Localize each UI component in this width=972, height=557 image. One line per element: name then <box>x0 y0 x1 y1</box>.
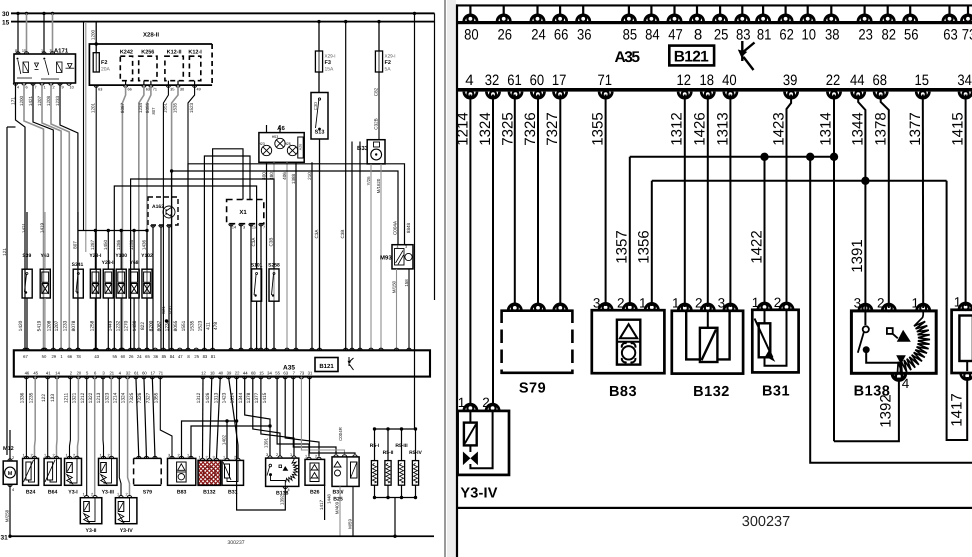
wire label 1200 top <box>91 29 96 40</box>
svg-text:36: 36 <box>153 354 158 359</box>
wire stub pin 82 of A35 <box>887 6 889 16</box>
pin of A35 top <box>119 348 123 350</box>
connector pin 44 of A35 <box>852 91 865 98</box>
connector B138 pin 1 <box>917 304 930 311</box>
wire X1 pin 3 to A35 <box>240 224 242 351</box>
svg-text:1324: 1324 <box>477 112 494 145</box>
svg-text:F3: F3 <box>325 60 331 66</box>
svg-text:807: 807 <box>73 241 78 249</box>
wire X1 pin 7 to A35 <box>260 224 262 351</box>
relay A171 <box>14 54 76 83</box>
svg-text:1: 1 <box>458 395 466 410</box>
wire 7325 pin61 to S79 <box>514 95 516 307</box>
wire 8055 <box>147 85 151 350</box>
wire label M/409 <box>334 501 339 514</box>
junction bottom rail R5-II <box>386 496 389 499</box>
switch S13 <box>311 93 328 140</box>
pin 5 of A35 bottom <box>85 377 89 379</box>
svg-text:1214: 1214 <box>454 112 471 145</box>
wire label 1286 <box>116 239 121 250</box>
wire below Y28-I <box>94 298 96 350</box>
junction rail Y28-I <box>94 229 97 232</box>
wire branch far left <box>7 126 16 128</box>
svg-text:822: 822 <box>140 322 146 330</box>
wire stub pin 73 of A35 <box>967 6 969 16</box>
wire X1 pin 14 to A35 <box>230 224 232 351</box>
svg-text:81: 81 <box>211 354 216 359</box>
connector pin 83 of A35 <box>736 15 749 22</box>
junction X28-II entry <box>95 42 98 45</box>
pin 61 of A35 bottom <box>134 377 138 379</box>
svg-text:A6: A6 <box>277 125 285 132</box>
wire above Y68 <box>133 231 135 270</box>
svg-text:36: 36 <box>577 27 592 44</box>
wire label 1420 above A35 <box>18 320 24 331</box>
wire 1355 to B83 pin3 <box>160 377 172 458</box>
connector pin 56 of A35 <box>904 15 917 22</box>
pin 4 of A35 bottom <box>117 377 121 379</box>
svg-text:12: 12 <box>676 72 691 89</box>
svg-text:C3A: C3A <box>314 229 319 239</box>
component Y3-IV <box>458 411 509 475</box>
svg-text:5A: 5A <box>385 67 392 73</box>
wire stub pin 24 of A35 <box>536 6 538 16</box>
wire stub pin 25 of A35 <box>719 6 721 16</box>
svg-text:63: 63 <box>146 88 150 92</box>
module K12-II box <box>165 56 183 80</box>
Y3-IV box <box>115 498 136 524</box>
wire 1313 to B132 pin3 <box>217 377 221 458</box>
pin 3 of B138L <box>268 456 272 458</box>
pin of A35 top <box>394 348 398 350</box>
svg-text:1344: 1344 <box>849 112 866 145</box>
wire 1234 <box>139 85 144 350</box>
pin of A35 top <box>132 348 136 350</box>
junction rail A pin22 <box>235 419 238 422</box>
junction bus30 x44 <box>42 12 45 15</box>
pin 26 of A35 top <box>128 348 132 350</box>
junction bottom rail R5-III <box>400 496 403 499</box>
connector pin 60 of A35 <box>531 91 544 98</box>
pin 73 of A35 bottom <box>299 377 303 379</box>
svg-text:1377: 1377 <box>254 392 260 403</box>
wire stub pin 47 of A35 <box>673 6 675 16</box>
wire route to S101 <box>114 186 256 350</box>
svg-text:1422: 1422 <box>748 230 765 263</box>
svg-text:B83: B83 <box>177 490 187 496</box>
svg-text:18: 18 <box>700 72 715 89</box>
svg-text:39: 39 <box>227 371 232 376</box>
wire label 1322 below A35 <box>88 392 94 403</box>
B138 left internals <box>269 464 272 467</box>
B138 internal wire to pin 4 <box>866 351 900 373</box>
svg-text:30: 30 <box>180 88 184 92</box>
wire M/150 <box>396 269 398 350</box>
svg-text:3: 3 <box>854 296 862 311</box>
wire 1200 to fuse F2 <box>95 22 97 53</box>
svg-text:1313: 1313 <box>714 112 731 145</box>
wire main vertical x345 <box>345 22 347 351</box>
connector S79 middle pin <box>531 304 544 311</box>
svg-text:K256: K256 <box>141 50 154 56</box>
pin 1 of Y3-IV <box>119 496 123 498</box>
svg-text:15: 15 <box>915 72 930 89</box>
svg-text:1312: 1312 <box>669 112 686 145</box>
pin of A35 top <box>272 348 276 350</box>
connector S79 left pin <box>508 304 521 311</box>
pin 24 of A35 top <box>137 348 141 350</box>
connector pin 17 of A35 <box>554 91 567 98</box>
wire 7327 pin17 to S79 <box>559 95 561 307</box>
svg-text:29: 29 <box>51 354 56 359</box>
wire label 1314 <box>818 112 835 145</box>
wire label 1448 <box>327 494 332 504</box>
wire 1378 pin68 to B138 pin2 <box>881 95 889 309</box>
svg-text:56: 56 <box>904 27 919 44</box>
pin 71 of A35 bottom <box>158 377 162 379</box>
svg-text:4: 4 <box>465 72 473 89</box>
svg-text:C004R: C004R <box>338 427 343 441</box>
wire A162 to A35 <box>152 225 154 350</box>
svg-text:2: 2 <box>205 455 207 459</box>
wire to B30 pin1 <box>310 377 356 454</box>
valve Y102 box <box>142 269 152 298</box>
wire to R5-I <box>374 429 376 461</box>
wire 7327 to S79 <box>152 377 155 458</box>
svg-text:1344: 1344 <box>238 392 244 403</box>
svg-text:1420: 1420 <box>18 320 24 331</box>
pin 4 of A171 <box>13 83 17 85</box>
connector pin 62 of A35 <box>779 15 792 22</box>
svg-text:133: 133 <box>50 394 56 402</box>
svg-text:60: 60 <box>121 354 126 359</box>
B26 box <box>305 459 325 485</box>
wire label 8087 <box>120 102 125 113</box>
svg-text:C004A: C004A <box>393 220 398 235</box>
svg-text:1415: 1415 <box>950 112 967 145</box>
label box B121 <box>315 358 338 372</box>
fuse F2 body <box>375 51 382 72</box>
connector pin 39 of A35 <box>785 91 798 98</box>
svg-text:61: 61 <box>507 72 522 89</box>
connector pin 38 of A35 <box>825 15 838 22</box>
svg-text:1: 1 <box>954 295 962 310</box>
junction rail R5-IV <box>414 427 417 430</box>
svg-text:121: 121 <box>2 248 7 256</box>
pin 49 of X28-II <box>192 85 196 87</box>
pin of A35 top <box>229 348 233 350</box>
wire label 1421b <box>22 222 27 233</box>
B83L box <box>168 458 196 485</box>
wire below S341 <box>77 298 79 350</box>
wire below Y100 <box>120 298 122 350</box>
pin 1 of Y3-III <box>101 456 105 458</box>
wire label C82 <box>374 87 379 96</box>
svg-text:1426: 1426 <box>205 392 211 403</box>
junction route <box>170 169 173 172</box>
component B132 <box>672 311 743 374</box>
junction bottom rail R5-IV <box>414 496 417 499</box>
wire 1355 pin71 to B83 pin3 <box>605 95 607 307</box>
svg-text:3: 3 <box>212 455 214 459</box>
wire 1233 / 8078 <box>60 83 78 350</box>
svg-text:H53: H53 <box>272 135 279 139</box>
wire label 1523 above A35 <box>198 320 204 331</box>
svg-text:Y3-IV: Y3-IV <box>120 528 134 534</box>
svg-text:B121: B121 <box>674 48 710 65</box>
wire label 1523 <box>189 102 194 113</box>
wire label 1551 <box>163 102 168 113</box>
wire below Y28-II <box>107 298 109 350</box>
svg-text:4: 4 <box>12 488 14 492</box>
svg-text:1421: 1421 <box>28 95 33 106</box>
wire label 400 <box>262 172 267 180</box>
junction rail Y28-II <box>107 229 110 232</box>
connector pin 47 of A35 <box>668 15 681 22</box>
B64 box <box>44 458 61 485</box>
svg-text:1211: 1211 <box>64 393 70 404</box>
svg-text:B30/: B30/ <box>333 490 345 496</box>
connector right sensor pin 1 <box>959 303 972 310</box>
pin 1 of B26 <box>307 457 311 459</box>
svg-text:F2: F2 <box>385 60 391 66</box>
wire label 1378 below A35 <box>246 392 252 403</box>
pin 35 of X28-II <box>166 85 170 87</box>
svg-text:1: 1 <box>99 453 101 457</box>
right pane top border <box>456 4 972 6</box>
pin of S79 left <box>144 456 148 458</box>
svg-text:46: 46 <box>25 371 30 376</box>
wire label 1378 <box>873 112 890 145</box>
wire 1523 <box>188 85 195 350</box>
wire 1207 / 1419 <box>42 83 61 350</box>
connector B31 pin 1 <box>758 303 771 310</box>
svg-text:1258: 1258 <box>89 320 95 331</box>
pin 60 of A35 bottom <box>142 377 146 379</box>
B83 inner symbol box <box>617 320 640 365</box>
svg-text:406: 406 <box>282 172 287 180</box>
svg-text:73: 73 <box>962 27 972 44</box>
svg-text:24: 24 <box>531 27 546 44</box>
pin 78 of A35 top <box>76 348 80 350</box>
svg-text:8848: 8848 <box>406 222 411 233</box>
pin 1 of B138L <box>292 456 296 458</box>
pin 43 of A35 top <box>94 348 98 350</box>
pin 3 of X1 <box>239 224 243 226</box>
wire route to X1 b <box>213 149 243 350</box>
wire label C3B b <box>269 238 274 247</box>
switch S101 box <box>252 269 262 301</box>
wire to B30 pin2 <box>301 377 344 454</box>
svg-text:1449: 1449 <box>107 320 113 331</box>
svg-text:1: 1 <box>752 295 760 310</box>
svg-text:1: 1 <box>290 453 292 457</box>
pin 1 of B64 <box>46 456 50 458</box>
wire stub pin 81 of A35 <box>762 6 764 16</box>
wire label 1423 below A35 <box>222 392 228 403</box>
svg-text:M/409: M/409 <box>334 501 339 514</box>
R5-II box <box>385 461 391 486</box>
wire 1201 <box>95 85 97 350</box>
pin 10 of A171 <box>67 83 71 85</box>
svg-text:122: 122 <box>41 394 47 402</box>
pin 34 of A35 bottom <box>267 377 271 379</box>
svg-text:8055: 8055 <box>173 320 179 331</box>
wire label 1234 above A35 <box>165 320 171 331</box>
ECU A35 box <box>14 350 430 376</box>
wire label 1313 <box>714 112 731 145</box>
wire label M/258 <box>4 509 9 522</box>
svg-text:2: 2 <box>617 296 625 311</box>
Y3-II box <box>80 498 102 524</box>
lamp module A6 <box>259 133 304 163</box>
wire 1214 pin4 to Y3-IV pin1 <box>469 95 471 407</box>
svg-text:M/150: M/150 <box>391 280 396 293</box>
svg-text:4: 4 <box>119 371 122 376</box>
svg-text:15: 15 <box>259 371 264 376</box>
footer separator line <box>457 507 972 509</box>
wire 1417 row B to right sensor pin2 <box>947 181 968 440</box>
wire label C3D <box>313 102 318 110</box>
wire label 1551 above A35 <box>181 320 187 331</box>
connector pin 8 of A35 <box>690 15 703 22</box>
pin 2 of B24 <box>32 456 36 458</box>
junction rail Y68 <box>132 229 135 232</box>
wire label 1200 <box>19 95 24 106</box>
connector pin 32 of A35 <box>486 91 499 98</box>
svg-text:M/258: M/258 <box>4 509 9 522</box>
wire above S39 <box>26 212 28 269</box>
wire 1356 B83 pin1 up to row B <box>651 181 653 306</box>
wire above Y102 <box>146 231 148 270</box>
svg-text:1391: 1391 <box>264 437 269 448</box>
wire twin b <box>85 22 87 252</box>
wire M/1620 <box>380 164 382 350</box>
svg-text:X1: X1 <box>239 209 247 216</box>
svg-text:X29-I: X29-I <box>385 54 396 59</box>
pin 6 of A171 <box>22 83 26 85</box>
svg-text:1402: 1402 <box>222 434 227 445</box>
B138 clock spring coil <box>897 311 930 374</box>
R5-III box <box>398 461 404 486</box>
wire 7325 to S79 <box>136 377 139 458</box>
junction bus15 x379 <box>377 20 380 23</box>
svg-text:3: 3 <box>266 453 268 457</box>
wire 1324 pin32 to Y3-IV pin2 <box>492 95 494 407</box>
pin 30 of X28-II <box>176 85 180 87</box>
svg-text:7326: 7326 <box>137 392 143 403</box>
wire label 7327 below A35 <box>145 392 151 403</box>
connector B132 pin 1 <box>678 304 691 311</box>
wire 1426 to B132 pin2 <box>210 377 212 458</box>
pin 68 of A35 bottom <box>251 377 255 379</box>
wire 1312 to B132 pin1 <box>202 377 205 458</box>
wire label 1391 <box>849 239 866 272</box>
wire stub pin 66 of A35 <box>559 6 561 16</box>
svg-text:2: 2 <box>70 371 73 376</box>
svg-text:Y3-I: Y3-I <box>68 490 78 496</box>
wire label M/1620 <box>376 178 381 193</box>
svg-text:34: 34 <box>267 371 272 376</box>
svg-text:1436: 1436 <box>142 239 147 250</box>
svg-text:1: 1 <box>911 296 919 311</box>
svg-text:67: 67 <box>23 354 28 359</box>
wire 1415 pin34 to right sensor pin1 <box>965 95 967 307</box>
pin 66 of X28-II <box>123 85 127 87</box>
wire row A down and right to edge <box>810 157 972 463</box>
connector pin 34 of A35 <box>959 91 972 98</box>
wire label 210 <box>307 172 312 180</box>
svg-text:3: 3 <box>102 371 105 376</box>
junction rail Y102 <box>145 229 148 232</box>
bus 15 <box>11 21 435 23</box>
svg-text:1426: 1426 <box>692 112 709 145</box>
wire label 1356 <box>636 230 653 263</box>
pin 20 of A35 bottom <box>76 377 80 379</box>
B24 box <box>23 458 39 485</box>
junction bus30 x52.5 <box>51 12 54 15</box>
connector B83 pin 3 <box>599 303 612 310</box>
pin 8 of A35 top <box>186 348 190 350</box>
wire stub pin 83 of A35 <box>741 6 743 16</box>
connector pin 25 of A35 <box>714 15 727 22</box>
wire 400 <box>266 162 268 350</box>
wire label 1207 <box>37 95 42 106</box>
svg-text:1213: 1213 <box>96 392 102 403</box>
wire 480 <box>273 162 275 350</box>
wire label 807 <box>73 241 78 249</box>
pin 6 of A35 bottom <box>93 377 97 379</box>
svg-text:3: 3 <box>243 226 245 230</box>
wire glow rail top <box>375 428 416 430</box>
svg-text:63: 63 <box>943 27 958 44</box>
svg-text:2: 2 <box>12 456 14 460</box>
wire label 1336 below A35 <box>20 392 26 403</box>
junction rail R5-II <box>386 427 389 430</box>
pin 41 of A35 bottom <box>46 377 50 379</box>
svg-text:B24: B24 <box>26 490 36 496</box>
wire 1551 <box>163 85 168 350</box>
svg-text:8087: 8087 <box>157 320 163 331</box>
wire label 822 above A35 <box>140 322 146 330</box>
connector B83 pin 1 <box>645 303 658 310</box>
svg-text:55: 55 <box>112 354 117 359</box>
svg-text:158: 158 <box>404 279 409 287</box>
connector pin 73 of A35 <box>961 15 972 22</box>
svg-text:68: 68 <box>251 371 256 376</box>
wire label 1392 <box>878 394 895 427</box>
wire label C3A <box>314 229 319 239</box>
wire label 1450 <box>103 239 108 250</box>
svg-text:8: 8 <box>694 27 702 44</box>
wire route to M93 pin4 / C004A <box>172 171 398 350</box>
wire label 1233 above A35 <box>62 320 68 331</box>
wire A162 to A35 <box>168 225 170 350</box>
wire stub pin 62 of A35 <box>784 6 786 16</box>
wire 1313 pin40 to B132 pin3 <box>729 95 731 308</box>
connector pin 82 of A35 <box>881 15 894 22</box>
svg-text:1355: 1355 <box>590 112 607 145</box>
svg-text:1234: 1234 <box>138 102 143 113</box>
svg-text:8055: 8055 <box>145 102 150 113</box>
wire 1392 loop to B138 pin4 <box>834 378 899 442</box>
svg-text:50: 50 <box>42 354 47 359</box>
svg-text:1212: 1212 <box>80 392 86 403</box>
valve Y28-I box <box>90 269 100 298</box>
svg-text:82: 82 <box>881 27 896 44</box>
pin of A35 top <box>76 348 80 350</box>
pin 14 of X1 <box>229 224 233 226</box>
